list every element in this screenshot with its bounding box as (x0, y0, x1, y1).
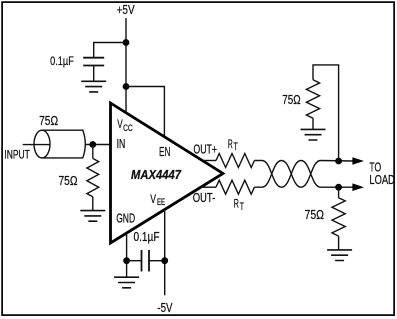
capacitor C2 0.1uF (VEE bypass) (142, 250, 150, 272)
wire coax to IN pin (86, 144, 111, 146)
resistor 75 ohm top termination (306, 80, 319, 118)
twisted pair wire B (bottom entry) (254, 161, 352, 188)
svg-text:75Ω: 75Ω (59, 173, 78, 188)
svg-text:75Ω: 75Ω (305, 207, 325, 222)
arrowhead TO LOAD (top) (352, 157, 364, 165)
arrowhead TO LOAD (bottom) (352, 183, 364, 191)
wire cap right lead (149, 260, 165, 262)
svg-text:75Ω: 75Ω (282, 92, 301, 107)
op-amp U1 MAX4447 triangle (111, 103, 224, 243)
node junction EN tap (123, 83, 130, 90)
wire VEE pin down to -5V (164, 210, 166, 296)
node junction at bypass cap tap (123, 39, 130, 46)
svg-text:-5V: -5V (157, 300, 172, 315)
wire GND pin down (126, 233, 128, 277)
resistor 75 ohm bottom termination (332, 198, 345, 236)
wire cap left lead (127, 260, 142, 262)
svg-text:EN: EN (159, 144, 170, 159)
wire OUT- lead (201, 186, 216, 188)
ground (input termination) (80, 211, 105, 222)
wire top termination branch (313, 65, 339, 161)
resistor RT (OUT+) (216, 154, 254, 168)
ground (top termination) (301, 129, 326, 140)
node junction GND/cap (123, 257, 130, 264)
wire to EN pin (126, 87, 164, 138)
wire resistor to ground (312, 118, 314, 129)
svg-text:GND: GND (116, 210, 135, 225)
wire bottom termination branch (338, 187, 340, 198)
svg-text:LOAD: LOAD (369, 173, 394, 187)
resistor RT (OUT-) (216, 180, 254, 194)
svg-text:T: T (234, 141, 238, 153)
svg-text:R: R (234, 197, 239, 211)
coax cable 75 ohm (cylinder) (42, 130, 85, 158)
svg-text:IN: IN (117, 136, 126, 151)
ground (bypass cap) (81, 81, 106, 92)
svg-text:CC: CC (123, 123, 133, 133)
svg-text:+5V: +5V (117, 2, 135, 17)
svg-text:V: V (150, 193, 156, 206)
node junction OUT+ / top termination (335, 158, 342, 165)
node junction OUT- / bottom termination (335, 184, 342, 191)
svg-text:0.1µF: 0.1µF (134, 229, 160, 244)
wire cap to ground (93, 66, 95, 82)
wire down to termination resistor (92, 145, 94, 159)
svg-text:OUT+: OUT+ (193, 142, 217, 157)
svg-text:T: T (240, 201, 244, 213)
svg-text:EE: EE (157, 197, 165, 207)
svg-text:INPUT: INPUT (4, 148, 29, 161)
svg-text:R: R (228, 137, 233, 151)
wire resistor to ground (338, 236, 340, 250)
svg-text:MAX4447: MAX4447 (131, 167, 182, 182)
wire resistor to ground (92, 197, 94, 211)
node junction VEE/cap (161, 257, 168, 264)
resistor 75 ohm input termination (87, 158, 99, 196)
ground (GND pin) (114, 277, 139, 288)
svg-text:0.1µF: 0.1µF (50, 55, 74, 68)
capacitor C1 0.1uF (VCC bypass) (83, 58, 104, 66)
wire input stub (23, 144, 50, 146)
svg-text:75Ω: 75Ω (39, 113, 58, 128)
wire to bypass capacitor (94, 43, 126, 58)
ground (bottom termination) (327, 250, 352, 261)
twisted pair wire A (top entry) (254, 161, 352, 188)
svg-text:OUT-: OUT- (193, 190, 216, 205)
svg-text:V: V (117, 118, 123, 131)
wire +5V rail down to VCC pin (125, 18, 127, 113)
wire OUT+ lead (202, 160, 216, 162)
node junction at IN (89, 141, 96, 148)
